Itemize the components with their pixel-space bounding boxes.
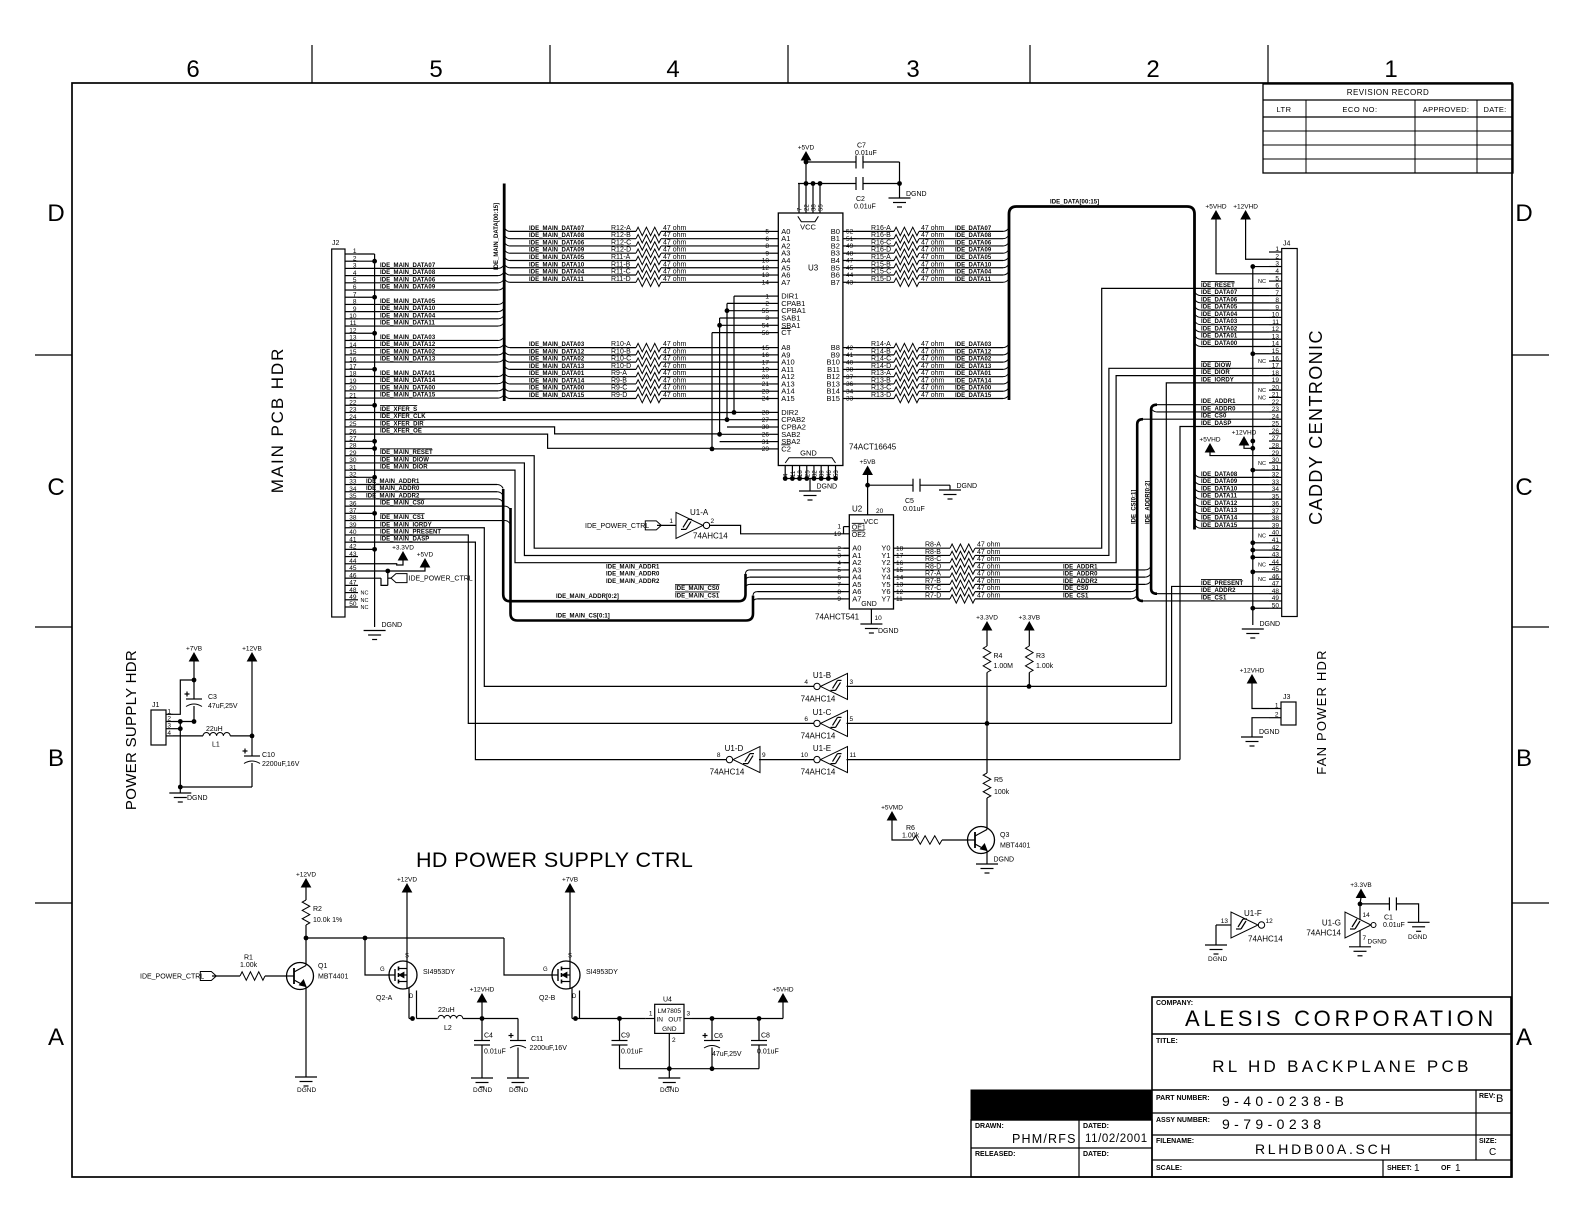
J2 pin 24 stub: [345, 419, 358, 421]
svg-text:44: 44: [349, 558, 357, 565]
U3 pin 54 SBA1: [770, 324, 778, 326]
wire IDE_CS0 bus to J4-24: [1143, 418, 1269, 420]
wire IDE_IORDY U1-B in to J4-19: [847, 685, 1167, 687]
svg-text:C6: C6: [714, 1033, 723, 1040]
svg-text:NC: NC: [1258, 395, 1266, 401]
wire IDE_XFER_OE J2-26: [358, 434, 712, 448]
J2 pin 10 stub: [345, 318, 358, 320]
svg-text:49: 49: [846, 243, 854, 250]
svg-text:+7VB: +7VB: [186, 646, 202, 653]
capacitor C4 0.01uF: [481, 1019, 483, 1041]
svg-text:IDE_DATA14: IDE_DATA14: [1201, 515, 1238, 521]
svg-text:42: 42: [1272, 544, 1280, 551]
J2 ground bus wire: [374, 254, 376, 627]
svg-text:U1-D: U1-D: [725, 744, 744, 753]
svg-text:47uF,25V: 47uF,25V: [712, 1051, 742, 1058]
svg-text:2200uF,16V: 2200uF,16V: [530, 1045, 568, 1052]
U3 pin 51 B1: [843, 238, 856, 240]
resistor R13-B 47 ohm: [856, 383, 894, 385]
J2 pin 14 stub: [345, 347, 358, 349]
power flag +5VB U2: [863, 467, 872, 475]
svg-text:+5VMD: +5VMD: [881, 805, 903, 812]
resistor R9-D 47 ohm: [504, 394, 510, 398]
svg-text:IDE_MAIN_DATA14: IDE_MAIN_DATA14: [380, 378, 436, 384]
U2 pin 18 Y0: [894, 547, 900, 549]
svg-text:21: 21: [349, 392, 357, 399]
svg-text:47 ohm: 47 ohm: [921, 385, 945, 392]
J4 pin 34 stub: [1269, 491, 1282, 493]
wire IDE_XFER_DIR J2-25: [358, 427, 720, 434]
wire IDE_DASP U1-E in to J4-25: [847, 759, 1181, 761]
U3 pin 14 A7: [770, 281, 778, 283]
wire IDE_MAIN_PRESENT J2-40 to U1-C out: [358, 535, 814, 723]
J4 pin 1 stub: [1269, 251, 1282, 253]
svg-text:IDE_MAIN_DATA08: IDE_MAIN_DATA08: [529, 233, 585, 239]
svg-text:1: 1: [1455, 1163, 1461, 1174]
svg-text:74AHC14: 74AHC14: [801, 695, 836, 704]
resistor R7-D 47 ohm: [899, 598, 950, 600]
svg-text:IDE_DATA10: IDE_DATA10: [1201, 486, 1238, 492]
svg-text:5: 5: [765, 229, 769, 236]
svg-text:47 ohm: 47 ohm: [663, 254, 687, 261]
svg-text:IDE_MAIN_DATA04: IDE_MAIN_DATA04: [380, 313, 436, 319]
resistor R10-A 47 ohm: [504, 344, 510, 348]
svg-text:R15-D: R15-D: [871, 276, 891, 283]
svg-text:IDE_MAIN_ADDR1: IDE_MAIN_ADDR1: [606, 564, 660, 570]
svg-text:49: 49: [349, 594, 357, 601]
svg-text:IDE_DATA00: IDE_DATA00: [955, 386, 992, 392]
J2 pin 6 stub: [345, 289, 358, 291]
svg-text:+5VHD: +5VHD: [772, 987, 793, 994]
U3 pin 43 B7: [843, 281, 856, 283]
svg-text:47 ohm: 47 ohm: [921, 348, 945, 355]
connector J1: [151, 710, 166, 745]
bus IDE_MAIN_DATA[00:15]: [503, 184, 506, 402]
U3 pin 5 A0: [770, 230, 778, 232]
J4 pin 46 stub: [1269, 578, 1282, 580]
resistor R13-D 47 ohm: [856, 397, 894, 399]
resistor R16-B 47 ohm: [856, 238, 894, 240]
svg-text:IDE_DATA04: IDE_DATA04: [955, 270, 992, 276]
svg-text:R14-D: R14-D: [871, 363, 891, 370]
svg-text:46: 46: [827, 470, 833, 477]
wire Q2-A drain to L2: [408, 988, 410, 1019]
J2 pin 41 stub: [345, 541, 358, 543]
U3 pin 9 A3: [770, 252, 778, 254]
svg-text:47 ohm: 47 ohm: [977, 571, 1001, 578]
svg-text:Y7: Y7: [881, 594, 890, 603]
svg-text:IDE_DATA15: IDE_DATA15: [1201, 523, 1238, 529]
svg-text:APPROVED:: APPROVED:: [1423, 105, 1469, 114]
svg-text:NC: NC: [1258, 534, 1266, 540]
svg-text:26: 26: [762, 432, 770, 439]
J4 pin 29 stub: [1269, 455, 1282, 457]
svg-text:10: 10: [349, 313, 357, 320]
svg-text:47 ohm: 47 ohm: [663, 276, 687, 283]
svg-text:45: 45: [846, 265, 854, 272]
svg-text:1: 1: [765, 293, 769, 300]
svg-text:25: 25: [805, 470, 811, 477]
svg-text:7: 7: [837, 582, 841, 589]
connector J2 MAIN PCB HDR: [332, 249, 345, 617]
U3 pin 27 CPAB2: [770, 419, 778, 421]
svg-text:D: D: [409, 994, 414, 1000]
wire IDE_MAIN_ADDR0 J2-34 to addr bus: [358, 491, 497, 493]
U3 pin 40 B10: [843, 361, 856, 363]
svg-text:IDE_MAIN_CS0: IDE_MAIN_CS0: [380, 501, 425, 507]
svg-text:DGND: DGND: [1208, 956, 1227, 963]
power flag +5VMD: [888, 812, 897, 820]
svg-text:MAIN PCB HDR: MAIN PCB HDR: [268, 347, 287, 494]
J4 pin 31 stub: [1269, 469, 1282, 471]
svg-text:6: 6: [353, 284, 357, 291]
U3 pin 1 DIR1: [770, 295, 778, 297]
svg-text:47 ohm: 47 ohm: [921, 269, 945, 276]
svg-text:34: 34: [349, 486, 357, 493]
svg-text:38: 38: [349, 515, 357, 522]
zone tick top: [1267, 45, 1269, 83]
svg-text:47 ohm: 47 ohm: [921, 261, 945, 268]
power flag +5VHD out: [779, 994, 788, 1002]
U3 pin 37 B12: [843, 376, 856, 378]
svg-text:IDE_MAIN_DATA04: IDE_MAIN_DATA04: [529, 270, 585, 276]
wire IDE_XFER_CLK J2-24: [358, 419, 727, 421]
svg-text:D: D: [47, 200, 64, 227]
svg-text:42: 42: [846, 345, 854, 352]
J2 pin 36 stub: [345, 505, 358, 507]
resistor R3 1.00k: [1026, 646, 1034, 673]
U3 GND pins 4,11,18,25,32,39,46,53: [784, 466, 786, 479]
svg-text:15: 15: [762, 345, 770, 352]
svg-text:27: 27: [1272, 435, 1280, 442]
svg-text:MBT4401: MBT4401: [1000, 843, 1030, 850]
svg-text:A7: A7: [852, 594, 861, 603]
svg-text:IDE_MAIN_DATA02: IDE_MAIN_DATA02: [380, 349, 436, 355]
svg-text:NC: NC: [361, 591, 369, 597]
svg-text:0.01uF: 0.01uF: [1383, 922, 1405, 929]
wire U4 out rail: [692, 1018, 783, 1020]
capacitor C9 0.01uF: [619, 1019, 621, 1041]
svg-text:13: 13: [896, 582, 904, 589]
svg-text:47 ohm: 47 ohm: [663, 377, 687, 384]
U3 pin 17 A10: [770, 361, 778, 363]
svg-text:31: 31: [349, 464, 357, 471]
svg-text:+12VHD: +12VHD: [1240, 668, 1265, 675]
zone tick top: [787, 45, 789, 83]
wire DIR1-DIR2 tie: [733, 296, 735, 412]
bus IDE_MAIN_CS[0:1]: [511, 508, 754, 621]
svg-text:55: 55: [819, 204, 825, 211]
wire IDE_MAIN_CS0 J2-36 to cs bus: [358, 505, 505, 507]
J2 pin 33 stub: [345, 484, 358, 486]
svg-text:FAN POWER HDR: FAN POWER HDR: [1314, 649, 1329, 774]
svg-text:13: 13: [1221, 918, 1229, 925]
wire Y7 to cs bus: [1003, 598, 1131, 600]
J2 pin 37 stub: [345, 512, 358, 514]
svg-text:IDE_MAIN_DATA07: IDE_MAIN_DATA07: [380, 263, 436, 269]
J2 pin 21 stub: [345, 397, 358, 399]
svg-text:A15: A15: [781, 394, 794, 403]
J4 pin 3 stub: [1269, 266, 1282, 268]
svg-text:47 ohm: 47 ohm: [921, 392, 945, 399]
svg-text:74AHC14: 74AHC14: [801, 732, 836, 741]
J4 pin 5 stub: [1269, 280, 1282, 282]
svg-text:18: 18: [798, 470, 804, 477]
svg-text:31: 31: [1272, 464, 1280, 471]
svg-text:47 ohm: 47 ohm: [977, 549, 1001, 556]
U3 pin 23 A14: [770, 390, 778, 392]
J2 pin 29 stub: [345, 455, 358, 457]
resistor R16-C 47 ohm: [856, 245, 894, 247]
resistor R15-A 47 ohm: [856, 259, 894, 261]
svg-text:R5: R5: [994, 777, 1003, 784]
svg-text:14: 14: [896, 574, 904, 581]
svg-text:28: 28: [1272, 442, 1280, 449]
svg-text:DGND: DGND: [473, 1087, 492, 1094]
svg-text:DGND: DGND: [878, 628, 899, 635]
wire J2 pin 1 to ground bus: [358, 253, 375, 255]
J4 pin 19 stub: [1269, 382, 1282, 384]
svg-text:47 ohm: 47 ohm: [977, 563, 1001, 570]
ground DGND U1-G: [1349, 946, 1371, 948]
svg-text:DGND: DGND: [660, 1087, 679, 1094]
svg-text:3: 3: [353, 263, 357, 270]
U3 pin 52 B0: [843, 230, 856, 232]
svg-text:47 ohm: 47 ohm: [663, 247, 687, 254]
J1 pin 3 stub: [166, 728, 173, 730]
svg-text:2: 2: [1275, 253, 1279, 260]
wire J2 pin 22 to ground bus: [358, 404, 375, 406]
svg-text:13: 13: [349, 335, 357, 342]
svg-text:IDE_PRESENT: IDE_PRESENT: [1201, 581, 1244, 587]
svg-text:B: B: [48, 745, 64, 772]
capacitor C10 2200uF,16V: [251, 736, 253, 756]
bus IDE_CS[0:1] right: [1137, 419, 1143, 601]
svg-text:20: 20: [1272, 384, 1280, 391]
svg-text:52: 52: [846, 229, 854, 236]
svg-text:51: 51: [846, 236, 854, 243]
zone tick top: [549, 45, 551, 83]
wire IDE_MAIN_DATA10 J2-9 to data bus: [358, 311, 498, 313]
svg-text:3: 3: [906, 56, 919, 83]
zone tick top: [1029, 45, 1031, 83]
svg-text:100k: 100k: [994, 789, 1010, 796]
svg-text:+12VHD: +12VHD: [1232, 430, 1257, 437]
J2 pin 32 stub: [345, 476, 358, 478]
svg-text:DGND: DGND: [509, 1087, 528, 1094]
svg-text:5: 5: [1275, 275, 1279, 282]
wire IDE_DATA04 bus to J4-10: [1195, 313, 1202, 317]
svg-text:DATED:: DATED:: [1083, 1123, 1109, 1130]
svg-text:SHEET:: SHEET:: [1387, 1165, 1412, 1172]
svg-text:47: 47: [846, 258, 854, 265]
ground DGND C11: [507, 1077, 529, 1079]
J2 pin 2 stub: [345, 260, 358, 262]
svg-text:DGND: DGND: [1259, 729, 1280, 736]
svg-text:0.01uF: 0.01uF: [757, 1049, 779, 1056]
resistor R8-D 47 ohm: [899, 569, 950, 571]
U3 pin 20 A12: [770, 376, 778, 378]
resistor R15-B 47 ohm: [856, 267, 894, 269]
svg-text:47 ohm: 47 ohm: [921, 370, 945, 377]
svg-text:SI4953DY: SI4953DY: [586, 969, 618, 976]
svg-text:5: 5: [850, 716, 854, 723]
regulator U4 LM7805: [655, 1004, 684, 1033]
zone tick right: [1512, 626, 1549, 628]
svg-text:U1-C: U1-C: [813, 708, 832, 717]
ground DGND at C2/C7: [899, 184, 901, 199]
svg-text:R8-D: R8-D: [925, 563, 941, 570]
svg-text:IDE_MAIN_CS1: IDE_MAIN_CS1: [380, 515, 425, 521]
svg-text:R3: R3: [1036, 653, 1045, 660]
svg-text:R9-C: R9-C: [611, 385, 627, 392]
svg-text:+5VHD: +5VHD: [1199, 437, 1220, 444]
redacted black box: [971, 1090, 1152, 1120]
svg-text:56: 56: [762, 330, 770, 337]
wire IDE_MAIN_DIOR J2-31 to U2.A2: [358, 470, 849, 563]
wire IDE_MAIN_DATA09 J2-6 to data bus: [358, 289, 498, 291]
svg-text:IDE_MAIN_DATA09: IDE_MAIN_DATA09: [529, 248, 585, 254]
wire J1 pin1 to +7VB: [173, 680, 194, 714]
svg-text:NC: NC: [1258, 388, 1266, 394]
svg-text:0.01uF: 0.01uF: [855, 150, 877, 157]
svg-text:R12-C: R12-C: [611, 239, 631, 246]
U3 pin 13 A6: [770, 274, 778, 276]
svg-text:12: 12: [1272, 326, 1280, 333]
svg-text:IDE_DATA13: IDE_DATA13: [955, 364, 992, 370]
svg-text:IDE_CS[0:1]: IDE_CS[0:1]: [1131, 490, 1137, 524]
svg-text:8: 8: [1275, 297, 1279, 304]
U2 pins 1,19 OE: [844, 526, 850, 528]
svg-text:1: 1: [837, 524, 841, 531]
wire IDE_DIOR U2.Y2 to J4-18: [1003, 376, 1269, 563]
J3 pin 2 stub: [1269, 717, 1281, 719]
U2 pin 6 A4: [844, 576, 850, 578]
svg-text:+12VD: +12VD: [296, 872, 316, 879]
J2 pin 42 stub: [345, 548, 358, 550]
svg-text:L1: L1: [212, 742, 220, 749]
svg-text:47 ohm: 47 ohm: [977, 578, 1001, 585]
wire IDE_MAIN_DATA03 J2-13 to data bus: [358, 339, 498, 341]
svg-text:14: 14: [762, 279, 770, 286]
wire U1-F input to ground: [1216, 924, 1231, 926]
J2 pin 5 stub: [345, 282, 358, 284]
svg-text:REVISION RECORD: REVISION RECORD: [1347, 88, 1430, 97]
resistor R10-B 47 ohm: [504, 351, 510, 355]
J4 pin 32 stub: [1269, 476, 1282, 478]
svg-text:IDE_DIOR: IDE_DIOR: [1201, 370, 1230, 376]
svg-text:28: 28: [349, 443, 357, 450]
J4 pin 15 stub: [1269, 353, 1282, 355]
transistor Q2-A SI4953DY: [389, 961, 417, 989]
svg-text:R6: R6: [906, 825, 915, 832]
J2 pin 17 stub: [345, 368, 358, 370]
svg-text:U1-A: U1-A: [690, 508, 709, 517]
svg-text:IDE_DASP: IDE_DASP: [1201, 421, 1231, 427]
resistor R13-A 47 ohm: [856, 376, 894, 378]
svg-text:NC: NC: [1258, 563, 1266, 569]
svg-text:IDE_MAIN_DASP: IDE_MAIN_DASP: [380, 537, 429, 543]
inverter U1-D 74AHC14: [733, 747, 760, 773]
wire J4 pin 43 to ground bus: [1253, 556, 1269, 558]
svg-text:39: 39: [349, 522, 357, 529]
svg-text:42: 42: [349, 544, 357, 551]
svg-text:IDE_MAIN_CS0: IDE_MAIN_CS0: [675, 586, 720, 592]
svg-text:+12VD: +12VD: [397, 877, 417, 884]
J2 pin 16 stub: [345, 361, 358, 363]
svg-text:16: 16: [762, 352, 770, 359]
svg-text:2: 2: [353, 255, 357, 262]
svg-text:C2: C2: [781, 444, 791, 453]
svg-text:G: G: [380, 967, 385, 973]
J4 pin 20 stub: [1269, 389, 1282, 391]
U2 pin 7 A5: [844, 583, 850, 585]
resistor R8-B 47 ohm: [899, 554, 950, 556]
wire IDE_DATA08 bus to J4-32: [1195, 473, 1202, 477]
svg-text:50: 50: [1272, 602, 1280, 609]
J2 pin 22 stub: [345, 404, 358, 406]
resistor R11-B 47 ohm: [504, 264, 510, 268]
resistor R12-A 47 ohm: [504, 227, 510, 231]
svg-text:36: 36: [349, 500, 357, 507]
svg-text:11/02/2001: 11/02/2001: [1085, 1133, 1148, 1145]
J2 pin 12 stub: [345, 332, 358, 334]
svg-text:9: 9: [353, 306, 357, 313]
svg-text:R9-D: R9-D: [611, 392, 627, 399]
wire J4 pin 3 to ground bus: [1253, 266, 1269, 268]
svg-text:24: 24: [349, 414, 357, 421]
J2 pin 1 stub: [345, 253, 358, 255]
power flag +5VD J2: [358, 567, 425, 571]
resistor R14-C 47 ohm: [856, 361, 894, 363]
svg-text:16: 16: [1272, 355, 1280, 362]
zone tick top: [311, 45, 313, 83]
svg-text:IDE_XFER_OE: IDE_XFER_OE: [380, 429, 422, 435]
J2 pin 13 stub: [345, 339, 358, 341]
svg-text:DGND: DGND: [382, 622, 403, 629]
resistor R1 1.00k: [240, 972, 265, 980]
svg-text:IDE_MAIN_DATA06: IDE_MAIN_DATA06: [380, 277, 436, 283]
svg-text:41: 41: [349, 536, 357, 543]
svg-text:1: 1: [1414, 1163, 1420, 1174]
J4 pin 28 stub: [1269, 447, 1282, 449]
wire IDE_DATA06 bus to J4-8: [1195, 299, 1202, 303]
svg-text:IDE_XFER_CLK: IDE_XFER_CLK: [380, 414, 426, 420]
svg-text:C1: C1: [1384, 915, 1393, 922]
J2 pin 30 stub: [345, 462, 358, 464]
svg-text:L2: L2: [444, 1025, 452, 1032]
svg-text:34: 34: [846, 388, 854, 395]
svg-text:R7-C: R7-C: [925, 585, 941, 592]
J2 pin 40 stub: [345, 534, 358, 536]
svg-text:IDE_MAIN_IORDY: IDE_MAIN_IORDY: [380, 522, 432, 528]
svg-text:U4: U4: [663, 997, 672, 1004]
svg-text:R12-D: R12-D: [611, 247, 631, 254]
wire cs bus exit row 7: [753, 599, 758, 603]
svg-text:R9-B: R9-B: [611, 377, 627, 384]
power flag +7VB J1: [190, 653, 199, 661]
wire IDE_DATA07 bus to J4-7: [1195, 292, 1202, 296]
svg-text:38: 38: [1272, 515, 1280, 522]
wire J4 pin 42 to ground bus: [1253, 549, 1269, 551]
svg-text:43: 43: [1272, 552, 1280, 559]
svg-text:45: 45: [1272, 566, 1280, 573]
J4 pin 44 stub: [1269, 564, 1282, 566]
svg-text:14: 14: [1272, 341, 1280, 348]
svg-text:DGND: DGND: [1260, 621, 1281, 628]
wire J4 pin 15 to ground bus: [1253, 353, 1269, 355]
svg-text:8: 8: [837, 589, 841, 596]
